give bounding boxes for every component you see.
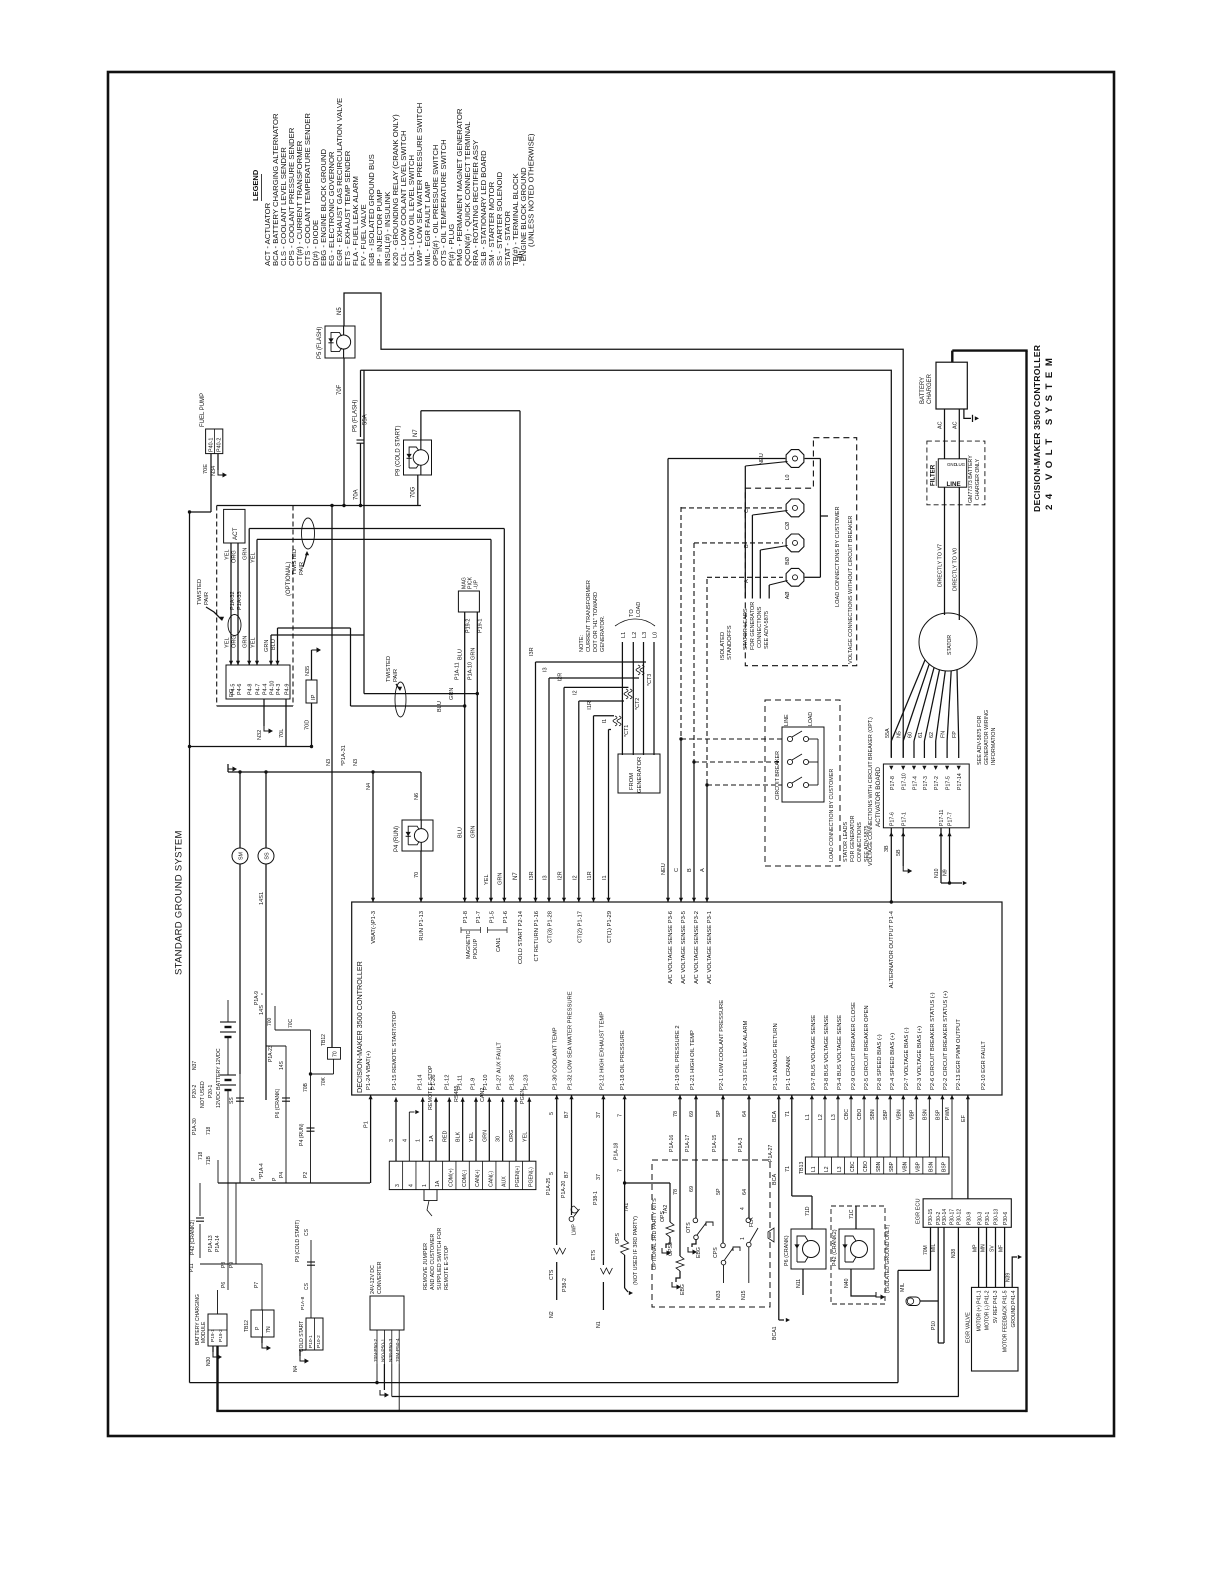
- svg-text:L0: L0: [785, 475, 791, 481]
- wire E6 BLU twisted pair: [271, 628, 351, 706]
- isolated standoffs terminals: [785, 450, 804, 600]
- svg-text:CT(2) P1-17: CT(2) P1-17: [577, 911, 583, 943]
- svg-text:P4 (RUN): P4 (RUN): [299, 1123, 305, 1146]
- svg-text:P40-2: P40-2: [217, 438, 223, 452]
- svg-text:CPS: CPS: [713, 1247, 719, 1258]
- svg-text:64: 64: [742, 1189, 748, 1195]
- dashed risers to breaker: [681, 507, 782, 785]
- svg-text:I2: I2: [572, 690, 578, 695]
- activator board bottom pin labels: [890, 810, 954, 826]
- svg-text:*P1A-4: *P1A-4: [259, 1163, 265, 1179]
- svg-text:BLU: BLU: [437, 701, 443, 712]
- svg-text:FP: FP: [952, 731, 958, 738]
- svg-text:N11: N11: [796, 1279, 802, 1288]
- svg-text:(NOT USED IF 3RD PARTY): (NOT USED IF 3RD PARTY): [633, 1216, 639, 1285]
- svg-text:YEL: YEL: [225, 637, 231, 648]
- svg-text:N10: N10: [934, 868, 940, 878]
- svg-text:N35: N35: [305, 666, 311, 676]
- wire 71 crank: [785, 1095, 812, 1196]
- svg-text:CT(3) P1-28: CT(3) P1-28: [548, 911, 554, 943]
- svg-text:N1: N1: [596, 1321, 602, 1328]
- wire 7 oil pressure: [614, 1095, 627, 1185]
- svg-text:P8: P8: [221, 1262, 227, 1268]
- svg-text:L2: L2: [632, 632, 638, 638]
- wire SM down: [239, 864, 241, 1074]
- svg-text:LOAD: LOAD: [636, 602, 642, 617]
- svg-text:P17-6: P17-6: [890, 812, 896, 826]
- svg-text:P7: P7: [254, 1282, 260, 1288]
- wire N7 from P9 to controller P2-14: [413, 411, 522, 902]
- svg-text:REMOTE E-STOP: REMOTE E-STOP: [444, 1245, 450, 1290]
- svg-text:7A1: 7A1: [624, 1203, 630, 1212]
- svg-text:P1-30 COOLANT TEMP: P1-30 COOLANT TEMP: [553, 1027, 559, 1090]
- relay P42 (CRANK2) coil: [189, 1183, 236, 1272]
- svg-text:P1-19 OIL PRESSURE 2: P1-19 OIL PRESSURE 2: [675, 1025, 681, 1090]
- svg-text:GRN: GRN: [243, 636, 249, 648]
- svg-text:P3-4 BUS VOLTAGE SENSE: P3-4 BUS VOLTAGE SENSE: [837, 1015, 843, 1090]
- svg-text:CBO: CBO: [857, 1109, 863, 1120]
- svg-text:P30-17: P30-17: [950, 1209, 956, 1225]
- svg-text:AUX: AUX: [502, 1176, 508, 1187]
- svg-text:LOAD CONNECTIONS BY CUSTOMER: LOAD CONNECTIONS BY CUSTOMER: [835, 507, 841, 608]
- svg-text:GRN: GRN: [482, 1130, 488, 1142]
- svg-text:PAIR: PAIR: [204, 592, 210, 605]
- svg-text:COM(+): COM(+): [448, 1168, 454, 1187]
- svg-text:CBC: CBC: [844, 1109, 850, 1120]
- svg-text:MOTOR (+) P41-1: MOTOR (+) P41-1: [976, 1290, 982, 1331]
- svg-text:64: 64: [742, 1111, 748, 1117]
- svg-text:A/C VOLTAGE SENSE P3-5: A/C VOLTAGE SENSE P3-5: [681, 911, 687, 984]
- svg-text:1A: 1A: [435, 1180, 441, 1187]
- stator output wires: [885, 660, 959, 758]
- svg-text:TWISTED: TWISTED: [292, 549, 298, 575]
- svg-text:P17-5: P17-5: [946, 776, 952, 790]
- wire 14S1: [259, 864, 266, 1100]
- svg-text:N38: N38: [951, 1249, 957, 1258]
- svg-text:SS: SS: [265, 852, 271, 860]
- svg-text:P1-14: P1-14: [418, 1074, 424, 1090]
- battery 12VDC symbols: [216, 1000, 236, 1183]
- svg-text:EGR VALVE: EGR VALVE: [966, 1312, 972, 1343]
- svg-text:L1: L1: [805, 1114, 811, 1120]
- svg-text:5: 5: [549, 1112, 555, 1115]
- svg-text:71B: 71B: [206, 1155, 212, 1165]
- svg-text:AC: AC: [938, 421, 944, 429]
- svg-text:CURRENT TRANSFORMER: CURRENT TRANSFORMER: [586, 580, 592, 652]
- svg-text:P17-11: P17-11: [939, 810, 945, 826]
- svg-text:70K: 70K: [321, 1076, 327, 1086]
- svg-text:P19-2: P19-2: [218, 1329, 224, 1342]
- svg-text:N34: N34: [211, 466, 217, 476]
- svg-text:BATTERY: BATTERY: [920, 377, 926, 404]
- svg-text:P4 (RUN): P4 (RUN): [394, 826, 400, 852]
- svg-text:BSN: BSN: [928, 1161, 934, 1172]
- svg-text:70B: 70B: [303, 1082, 309, 1092]
- svg-text:71C: 71C: [849, 1209, 855, 1219]
- optional 3rd party kits dashed box: [633, 1160, 770, 1307]
- svg-text:ISOLATED: ISOLATED: [720, 632, 726, 660]
- svg-text:P17-3: P17-3: [923, 776, 929, 790]
- svg-text:4: 4: [408, 1184, 414, 1187]
- svg-text:I1: I1: [602, 875, 608, 880]
- svg-text:P2-3 VOLTAGE BIAS (+): P2-3 VOLTAGE BIAS (+): [917, 1026, 923, 1090]
- legend ground symbol: [517, 252, 523, 262]
- svg-text:4: 4: [402, 1139, 408, 1142]
- svg-text:RS485: RS485: [454, 1086, 460, 1102]
- battery bus horizontal: [218, 1160, 370, 1183]
- svg-text:4: 4: [740, 1207, 746, 1210]
- svg-text:LOAD CONNECTION BY CUSTOMER: LOAD CONNECTION BY CUSTOMER: [829, 769, 835, 862]
- svg-text:I3: I3: [543, 875, 549, 880]
- svg-text:IP: IP: [311, 694, 317, 700]
- svg-text:P1A-14: P1A-14: [215, 1235, 221, 1252]
- svg-text:*CT2: *CT2: [635, 698, 641, 710]
- svg-text:N9: N9: [943, 869, 949, 876]
- svg-text:LEGEND: LEGEND: [251, 169, 260, 201]
- svg-text:L1: L1: [811, 1166, 817, 1172]
- svg-text:12VDC BATTERY 12VDC: 12VDC BATTERY 12VDC: [216, 1048, 222, 1108]
- svg-text:P11: P11: [189, 1263, 195, 1272]
- svg-text:P1-24 VBAT(+): P1-24 VBAT(+): [366, 1051, 372, 1090]
- svg-text:AC: AC: [952, 421, 958, 429]
- svg-text:P1-33 FUEL LEAK ALARM: P1-33 FUEL LEAK ALARM: [743, 1020, 749, 1090]
- twisted pair ellipse ACT wires: [228, 615, 241, 636]
- svg-text:N37: N37: [192, 1061, 198, 1070]
- svg-text:70A: 70A: [354, 489, 360, 500]
- svg-text:SBN: SBN: [876, 1161, 882, 1172]
- svg-text:N32: N32: [257, 730, 263, 740]
- wire 70F from P5: [337, 358, 346, 507]
- svg-text:A/C VOLTAGE SENSE P3-6: A/C VOLTAGE SENSE P3-6: [668, 911, 674, 984]
- svg-text:P1A-23: P1A-23: [268, 1045, 274, 1062]
- svg-text:P10-1: P10-1: [308, 1335, 314, 1348]
- svg-text:L0: L0: [653, 632, 659, 638]
- svg-text:69: 69: [689, 1111, 695, 1117]
- dashed box GM77373 battery charger only: [927, 441, 985, 505]
- svg-text:SM: SM: [239, 851, 245, 860]
- wire 5P CPS switch: [712, 1095, 740, 1300]
- dashed box isolated ground only: [831, 1206, 891, 1304]
- svg-text:CIRCUIT BREAKER: CIRCUIT BREAKER: [775, 751, 781, 800]
- svg-text:C: C: [674, 868, 680, 872]
- svg-text:VBAT(-)P1-3: VBAT(-)P1-3: [371, 911, 377, 944]
- wire 70D horizontal: [190, 746, 312, 748]
- svg-text:P4-4: P4-4: [263, 684, 269, 695]
- svg-text:I3R: I3R: [529, 647, 535, 656]
- svg-text:ACTIVATOR BOARD: ACTIVATOR BOARD: [875, 767, 882, 827]
- svg-text:I3R: I3R: [529, 871, 535, 880]
- wire 7A2: [625, 1183, 674, 1256]
- wire A to P3-1: [700, 577, 783, 902]
- svg-text:VBP: VBP: [909, 1109, 915, 1120]
- svg-text:P4-6: P4-6: [237, 684, 243, 695]
- svg-text:BCA1: BCA1: [772, 1326, 778, 1340]
- svg-text:PAIR: PAIR: [393, 669, 399, 682]
- svg-text:DIRECTLY TO V7: DIRECTLY TO V7: [938, 544, 944, 587]
- svg-text:OPS: OPS: [660, 1211, 666, 1222]
- wire NEU to P3-6: [661, 453, 785, 902]
- svg-text:P30-15: P30-15: [928, 1209, 934, 1225]
- wire 70G from P9: [411, 475, 418, 506]
- wire GRN E6 to CAN: [243, 529, 507, 903]
- svg-text:LINE: LINE: [784, 714, 790, 726]
- svg-text:62: 62: [929, 732, 935, 738]
- svg-text:P1A-15: P1A-15: [712, 1135, 718, 1152]
- relay P9 (COLD START): [404, 440, 432, 475]
- svg-text:GROUND P41-4: GROUND P41-4: [1011, 1290, 1017, 1327]
- svg-text:CØ: CØ: [785, 521, 791, 530]
- svg-text:P19-2: P19-2: [466, 619, 472, 633]
- svg-text:L3: L3: [642, 632, 648, 638]
- svg-text:VOLTAGE CONNECTIONS WITH CIRCU: VOLTAGE CONNECTIONS WITH CIRCUIT BREAKER…: [868, 717, 874, 866]
- svg-text:55A: 55A: [885, 728, 891, 738]
- svg-text:GENERATOR.: GENERATOR.: [600, 615, 606, 652]
- svg-text:P1A-25: P1A-25: [546, 1178, 552, 1195]
- svg-text:CAN(-): CAN(-): [488, 1171, 494, 1187]
- injector pump IP: [306, 680, 317, 703]
- svg-text:NOTE:: NOTE:: [579, 634, 585, 652]
- svg-text:A/C VOLTAGE SENSE P3-2: A/C VOLTAGE SENSE P3-2: [694, 911, 700, 984]
- wires filter to stator: [938, 487, 960, 620]
- svg-text:*P1A-31: *P1A-31: [341, 745, 347, 766]
- svg-text:78: 78: [673, 1111, 679, 1117]
- svg-text:P20-1: P20-1: [208, 1084, 214, 1098]
- wire YEL E6 to CAN: [251, 539, 494, 902]
- wire N34 to ground: [211, 454, 227, 478]
- svg-text:P1A-27: P1A-27: [768, 1145, 774, 1162]
- wire N35 to ground: [305, 647, 321, 680]
- svg-text:3B: 3B: [884, 845, 890, 852]
- starter solenoid SS: [258, 770, 274, 864]
- svg-text:CONNECTIONS: CONNECTIONS: [757, 606, 763, 648]
- svg-text:*: *: [261, 993, 267, 995]
- wire 70B vertical TB12: [330, 504, 333, 1048]
- svg-text:DECISION-MAKER 3500 CONTROLLER: DECISION-MAKER 3500 CONTROLLER: [1032, 344, 1042, 512]
- svg-text:P30-3: P30-3: [978, 1211, 984, 1225]
- svg-text:GM77373 BATTERY: GM77373 BATTERY: [968, 455, 974, 503]
- svg-text:L1: L1: [621, 632, 627, 638]
- svg-text:SEE ADV-5875: SEE ADV-5875: [764, 611, 770, 649]
- svg-text:70M-P50-4: 70M-P50-4: [395, 1338, 401, 1362]
- svg-text:CBO: CBO: [863, 1161, 869, 1172]
- svg-text:EBG: EBG: [696, 1247, 702, 1258]
- svg-text:YEL: YEL: [225, 549, 231, 560]
- wire 70 bus horizontal: [217, 505, 421, 507]
- wire SM with SS contact: [229, 864, 244, 1183]
- svg-text:P2-13 EGR PWM OUTPUT: P2-13 EGR PWM OUTPUT: [956, 1019, 962, 1090]
- svg-text:P4-7: P4-7: [256, 684, 262, 695]
- relay P4 (RUN): [394, 772, 433, 902]
- svg-text:EBG: EBG: [680, 1284, 686, 1295]
- svg-text:A/C VOLTAGE SENSE P3-1: A/C VOLTAGE SENSE P3-1: [707, 911, 713, 984]
- title DECISION-MAKER 3500 CONTROLLER 24 VOLT SYSTEM: [1032, 344, 1055, 512]
- svg-text:MODULE: MODULE: [201, 1321, 207, 1343]
- svg-text:P17-8: P17-8: [890, 776, 896, 790]
- svg-text:CTS: CTS: [549, 1269, 555, 1280]
- svg-text:SEE ADV-5875 FOR: SEE ADV-5875 FOR: [977, 715, 983, 765]
- svg-text:P42 (CRANK2): P42 (CRANK2): [190, 1220, 196, 1255]
- svg-text:ALTERNATOR OUTPUT P1-4: ALTERNATOR OUTPUT P1-4: [889, 910, 895, 988]
- isolated standoffs label: [720, 625, 733, 660]
- svg-text:P1-31 ANALOG RETURN: P1-31 ANALOG RETURN: [773, 1023, 779, 1090]
- svg-text:CAN2: CAN2: [480, 1088, 486, 1102]
- svg-text:70: 70: [414, 872, 420, 878]
- svg-text:BCA: BCA: [772, 1174, 778, 1185]
- wires EGR ECU to valve: [973, 1227, 1022, 1287]
- svg-text:N15: N15: [741, 1290, 747, 1300]
- svg-text:CHARGER ONLY: CHARGER ONLY: [975, 458, 981, 500]
- svg-text:SV REF P41-3: SV REF P41-3: [993, 1290, 999, 1323]
- labels not used P20: [192, 1061, 214, 1165]
- svg-text:GRN: GRN: [264, 640, 270, 652]
- svg-text:YEL: YEL: [484, 874, 490, 885]
- svg-text:EGR ECU: EGR ECU: [916, 1199, 922, 1225]
- svg-text:I2R: I2R: [558, 673, 564, 682]
- svg-text:P30-13: P30-13: [994, 1209, 1000, 1225]
- svg-text:700: 700: [267, 1017, 273, 1026]
- svg-text:*CT3: *CT3: [647, 674, 653, 686]
- svg-text:ORG: ORG: [232, 550, 238, 563]
- svg-text:L2: L2: [818, 1114, 824, 1120]
- svg-text:RED: RED: [442, 1131, 448, 1142]
- svg-text:STATOR: STATOR: [947, 635, 953, 655]
- svg-text:NEU: NEU: [661, 863, 667, 875]
- wire B to P3-2: [687, 543, 783, 902]
- svg-text:*CT1: *CT1: [624, 725, 630, 737]
- svg-text:P4-5: P4-5: [231, 684, 237, 695]
- svg-text:YEL: YEL: [251, 552, 257, 563]
- wire N10 N9 to ground: [934, 828, 967, 885]
- svg-text:BCA: BCA: [772, 1111, 778, 1122]
- wire 70E: [188, 454, 211, 514]
- svg-text:P2-2 CIRCUIT BREAKER STATUS (+: P2-2 CIRCUIT BREAKER STATUS (+): [943, 991, 949, 1090]
- svg-text:GENERATOR: GENERATOR: [637, 757, 643, 793]
- svg-text:P1A-30: P1A-30: [192, 1118, 198, 1135]
- svg-text:L3: L3: [837, 1166, 843, 1172]
- svg-text:GRN: GRN: [470, 648, 476, 660]
- svg-text:N33: N33: [716, 1290, 722, 1300]
- svg-text:N6: N6: [414, 793, 420, 800]
- svg-text:B: B: [687, 868, 693, 872]
- svg-text:N5: N5: [897, 731, 903, 738]
- svg-text:MF: MF: [999, 1245, 1005, 1252]
- wire E6 GRN to loop: [264, 635, 364, 665]
- svg-text:5P: 5P: [716, 1110, 722, 1117]
- svg-text:FOR GENERATOR: FOR GENERATOR: [750, 602, 756, 650]
- svg-text:70E: 70E: [203, 464, 209, 474]
- svg-text:BØ: BØ: [785, 556, 791, 565]
- svg-text:GRN: GRN: [449, 688, 455, 700]
- svg-text:P1-8: P1-8: [463, 911, 469, 923]
- MIL lamp: [900, 1283, 920, 1306]
- relay P42 (CRANK2) lower: [832, 1206, 874, 1292]
- svg-text:P1-9: P1-9: [470, 1078, 476, 1090]
- svg-text:TO: TO: [629, 609, 635, 617]
- svg-text:14S: 14S: [259, 1005, 265, 1015]
- svg-text:5P: 5P: [716, 1188, 722, 1195]
- svg-text:P6 (CRANK): P6 (CRANK): [275, 1088, 281, 1118]
- svg-text:P2-9 CIRCUIT BREAKER CLOSE: P2-9 CIRCUIT BREAKER CLOSE: [851, 1002, 857, 1090]
- svg-text:RUN P1-13: RUN P1-13: [419, 911, 425, 941]
- wire N3 horizontal: [228, 745, 421, 774]
- svg-text:P9: P9: [229, 1262, 235, 1268]
- wire P1A-9 label: [254, 991, 267, 1005]
- svg-text:70C: 70C: [288, 1018, 294, 1028]
- svg-text:VBN: VBN: [896, 1109, 902, 1120]
- svg-text:VOLTAGE CONNECTIONS WITHOUT CI: VOLTAGE CONNECTIONS WITHOUT CIRCUIT BREA…: [848, 516, 854, 664]
- svg-text:N38-P50-3: N38-P50-3: [388, 1338, 394, 1362]
- svg-text:70N-P50-2: 70N-P50-2: [373, 1338, 379, 1362]
- svg-text:P20-2: P20-2: [192, 1084, 198, 1098]
- twisted pair ellipse mag pickup: [386, 656, 406, 717]
- svg-text:P1-6: P1-6: [503, 911, 509, 923]
- svg-text:P30-6: P30-6: [1003, 1211, 1009, 1225]
- svg-text:P17-2: P17-2: [934, 776, 940, 790]
- svg-text:TB13: TB13: [799, 1161, 805, 1174]
- svg-text:MOTOR (-) P41-2: MOTOR (-) P41-2: [985, 1290, 991, 1330]
- svg-text:ORG: ORG: [509, 1130, 515, 1142]
- svg-text:OPS2: OPS2: [668, 1242, 674, 1256]
- svg-text:P2-6 CIRCUIT BREAKER STATUS (-: P2-6 CIRCUIT BREAKER STATUS (-): [930, 992, 936, 1090]
- svg-text:CAN1: CAN1: [496, 938, 502, 952]
- svg-text:N50-P50-1: N50-P50-1: [380, 1338, 386, 1362]
- svg-text:TWISTED: TWISTED: [197, 579, 203, 605]
- current transformers CT1 CT2 CT3: [613, 665, 653, 737]
- svg-text:P1-23: P1-23: [523, 1075, 529, 1090]
- svg-text:COM(-): COM(-): [462, 1169, 468, 1187]
- svg-text:N40: N40: [844, 1278, 850, 1288]
- svg-text:N7: N7: [513, 872, 519, 880]
- svg-text:70M: 70M: [923, 1245, 929, 1255]
- svg-text:FN: FN: [941, 731, 947, 738]
- svg-text:ORG: ORG: [232, 635, 238, 648]
- svg-text:AND ADD CUSTOMER: AND ADD CUSTOMER: [430, 1234, 436, 1290]
- svg-text:LOAD: LOAD: [808, 712, 814, 726]
- svg-text:BLU: BLU: [458, 827, 464, 838]
- svg-text:AØ: AØ: [785, 591, 791, 600]
- svg-text:P1-21 HIGH OIL TEMP: P1-21 HIGH OIL TEMP: [690, 1030, 696, 1090]
- svg-text:37: 37: [596, 1174, 602, 1180]
- wire 3B to alternator output P1-4: [884, 828, 893, 904]
- terminal TB12 70: [311, 1034, 341, 1086]
- svg-text:PGEN: PGEN: [520, 1089, 526, 1104]
- svg-text:P1A-10: P1A-10: [467, 662, 473, 680]
- svg-text:P19-1: P19-1: [210, 1329, 216, 1342]
- wires AC AC to filter: [938, 409, 960, 459]
- svg-text:ACT: ACT: [232, 527, 239, 540]
- svg-text:MIL: MIL: [900, 1283, 906, 1292]
- svg-text:OPTIONAL 3RD PARTY KITS: OPTIONAL 3RD PARTY KITS: [652, 1198, 658, 1270]
- svg-text:STATOR LEADS: STATOR LEADS: [843, 821, 849, 862]
- svg-text:7N: 7N: [266, 1326, 272, 1333]
- svg-text:P1A-8: P1A-8: [300, 1296, 306, 1310]
- wire B7 LWP branch: [561, 1095, 580, 1235]
- svg-text:NEU: NEU: [759, 453, 765, 465]
- relay P5 (FLASH): [325, 326, 355, 358]
- svg-text:P1-1 CRANK: P1-1 CRANK: [786, 1056, 792, 1090]
- legend entries: [263, 98, 536, 266]
- activator board: [875, 764, 969, 828]
- svg-text:DECISION-MAKER 3500 CONTROLLER: DECISION-MAKER 3500 CONTROLLER: [355, 961, 364, 1093]
- svg-text:P4-10: P4-10: [270, 681, 276, 695]
- stator leads to standoffs: [745, 462, 787, 599]
- svg-text:P2-10 EGR FAULT: P2-10 EGR FAULT: [981, 1041, 987, 1090]
- svg-text:N4: N4: [293, 1365, 299, 1372]
- svg-text:P1A-33: P1A-33: [237, 591, 243, 610]
- border frame: [108, 72, 1114, 1436]
- svg-text:P9 (COLD START): P9 (COLD START): [295, 1220, 301, 1262]
- wire N32 to ground: [257, 699, 273, 740]
